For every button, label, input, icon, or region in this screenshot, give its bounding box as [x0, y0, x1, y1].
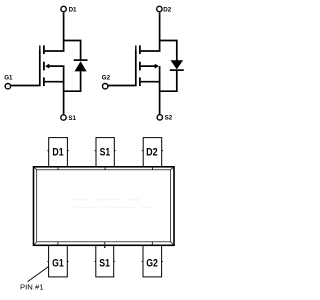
pin 1 G1 bottom-left — [47, 242, 68, 277]
wire diode branch bottom Q1 — [64, 71, 81, 91]
svg-text:G1: G1 — [4, 74, 13, 81]
pin #1 pointer line — [28, 267, 49, 282]
svg-text:G2: G2 — [102, 74, 111, 81]
wire source stub Q2 — [141, 81, 160, 83]
wire body Q1 — [49, 66, 64, 114]
pin 5 S1 top-middle — [95, 138, 116, 170]
svg-text:D1: D1 — [52, 147, 63, 159]
wire body Q2 — [141, 66, 160, 114]
wire drain Q2 — [141, 12, 160, 51]
svg-text:S2: S2 — [165, 115, 173, 122]
svg-text:G1: G1 — [52, 258, 64, 270]
faint body watermark remnant — [72, 200, 152, 208]
svg-text:S1: S1 — [100, 147, 111, 159]
wire source stub Q1 — [45, 81, 64, 83]
terminal D1 — [61, 6, 66, 11]
svg-text:S1: S1 — [68, 115, 76, 122]
package body SC-70-6 outline — [34, 167, 175, 246]
transistor Q2 — [136, 45, 159, 86]
svg-text:G2: G2 — [146, 258, 158, 270]
svg-text:PIN #1: PIN #1 — [20, 284, 44, 291]
diode D2 body diode — [170, 60, 184, 70]
wire diode branch top Q2 — [160, 41, 177, 61]
package body inner bevel edge — [34, 167, 175, 246]
pin 2 S1 bottom-middle — [94, 242, 115, 277]
wire diode branch top Q1 — [64, 41, 81, 61]
pin 3 G2 bottom-right — [142, 242, 163, 277]
pin 6 D1 top-left — [47, 138, 69, 170]
wire gate Q2 — [108, 50, 135, 86]
svg-text:D1: D1 — [69, 6, 77, 13]
wire gate Q1 — [11, 50, 40, 86]
wire drain Q1 — [45, 12, 64, 51]
svg-text:D2: D2 — [146, 147, 158, 159]
terminal G1 — [5, 84, 10, 89]
terminal S1 — [61, 115, 66, 120]
wire diode branch bottom Q2 — [160, 70, 177, 91]
pin 4 D2 top-right — [142, 138, 163, 170]
terminal D2 — [157, 6, 162, 11]
diode D1 body diode — [74, 60, 88, 71]
terminal S2 — [157, 115, 162, 120]
svg-text:S1: S1 — [99, 258, 110, 270]
transistor Q1 — [40, 45, 50, 86]
terminal G2 — [103, 84, 108, 89]
svg-text:D2: D2 — [163, 6, 171, 13]
